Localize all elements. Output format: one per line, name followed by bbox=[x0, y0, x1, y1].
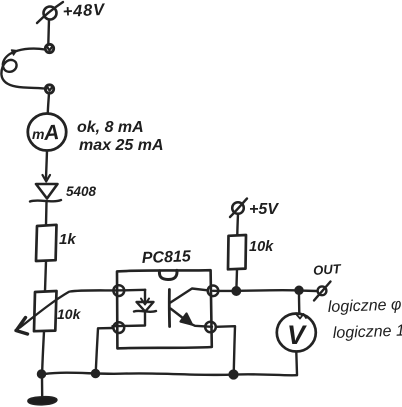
wire ammeter to diode bbox=[46, 151, 47, 178]
junction LED return bbox=[92, 370, 100, 378]
svg-text:A: A bbox=[42, 121, 60, 145]
jumper terminal bottom bbox=[45, 85, 53, 93]
resistor 10k pullup bbox=[228, 235, 246, 269]
terminal pin 4 (circle) bbox=[208, 286, 219, 297]
bottom rail wire bbox=[44, 373, 297, 376]
junction 10k pullup bbox=[232, 287, 240, 295]
terminal +48V bbox=[37, 2, 63, 23]
LED inside optocoupler bbox=[113, 290, 157, 326]
voltmeter V bbox=[277, 314, 316, 352]
terminal +5V bbox=[230, 199, 247, 218]
svg-text:+5V: +5V bbox=[249, 201, 279, 218]
jumper terminal top bbox=[45, 44, 53, 52]
ground bbox=[28, 397, 57, 405]
svg-text:10k: 10k bbox=[249, 239, 274, 255]
diode 5408 bbox=[30, 184, 61, 202]
svg-text:logiczne 1: logiczne 1 bbox=[333, 322, 402, 342]
svg-text:PC815: PC815 bbox=[142, 248, 193, 267]
voltmeter scribble top bbox=[297, 314, 307, 319]
wire jumper to ammeter bbox=[48, 93, 49, 113]
svg-text:5408: 5408 bbox=[66, 184, 97, 199]
svg-text:ok, 8 mA: ok, 8 mA bbox=[77, 119, 144, 136]
junction voltmeter tap bbox=[295, 286, 303, 294]
ammeter mA bbox=[28, 114, 66, 151]
phototransistor inside optocoupler bbox=[169, 289, 212, 327]
arrowhead above diode bbox=[43, 175, 51, 182]
junction ground node bbox=[38, 370, 46, 378]
wire voltmeter to rail bbox=[295, 352, 298, 375]
wire diode to R 1k bbox=[45, 202, 48, 225]
wire pin 4 to OUT rail bbox=[213, 289, 317, 292]
svg-text:10k: 10k bbox=[57, 306, 82, 322]
wire node to ground bbox=[41, 378, 44, 398]
terminal pin 2 (circle) bbox=[113, 322, 124, 333]
svg-text:max 25 mA: max 25 mA bbox=[79, 137, 164, 154]
svg-text:OUT: OUT bbox=[313, 261, 342, 278]
potentiometer 10k bbox=[16, 291, 69, 334]
wire R 10k to rail bbox=[235, 270, 238, 290]
wire pin 3 to bottom rail bbox=[216, 326, 235, 370]
terminal OUT bbox=[314, 282, 331, 301]
svg-text:m: m bbox=[32, 126, 44, 142]
svg-text:V: V bbox=[287, 320, 307, 350]
label mA bbox=[32, 121, 60, 145]
wire optocoupler pin 2 return bbox=[96, 328, 113, 371]
wire pot bottom to ground node bbox=[42, 331, 44, 371]
junction pin3 rail bbox=[229, 370, 238, 379]
terminal pin 1 (circle) bbox=[113, 285, 124, 296]
wire pot wiper to optocoupler pin 1 bbox=[70, 290, 145, 292]
wire tap to voltmeter bbox=[298, 294, 301, 314]
wire jumper loop bbox=[1, 49, 46, 89]
arrowhead on jumper wire bbox=[12, 50, 17, 55]
svg-text:1k: 1k bbox=[59, 231, 76, 248]
svg-text:logiczne φ: logiczne φ bbox=[328, 296, 402, 316]
terminal pin 3 (circle) bbox=[205, 322, 216, 333]
wire +5V to R 10k bbox=[236, 214, 239, 235]
wire R 1k to pot bbox=[45, 261, 46, 291]
wire +48V to jumper top bbox=[47, 20, 50, 46]
optocoupler PC815 box bbox=[117, 270, 212, 348]
resistor 1k bbox=[36, 225, 57, 261]
svg-text:+48V: +48V bbox=[62, 1, 106, 21]
